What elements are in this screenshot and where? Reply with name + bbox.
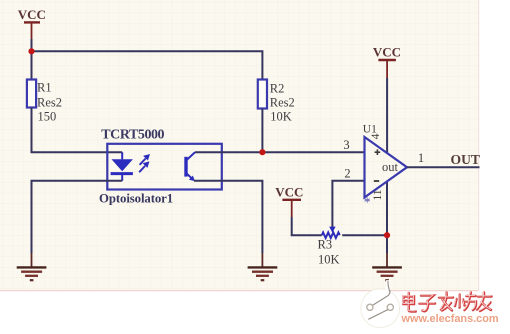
svg-text:R1: R1 [37,80,52,94]
wire collector to op-amp pin3 [195,151,365,153]
wire output pin1 [407,166,480,168]
watermark text you (友) [476,292,491,311]
watermark text dian (电) [403,292,416,311]
power port VCC3 (op-amp) [373,45,401,78]
svg-text:R3: R3 [318,238,333,252]
svg-text:VCC: VCC [275,185,303,200]
svg-text:www.elecfans.com: www.elecfans.com [401,313,499,325]
svg-text:1: 1 [418,151,424,165]
ground GND2 (middle) [248,253,278,280]
potentiometer R3 zigzag [322,232,340,238]
LED of optoisolator [111,152,133,181]
svg-text:VCC: VCC [18,7,46,22]
wire R1 bottom to LED anode [32,108,123,153]
plus sign pin3 [375,149,381,155]
resistor R1 [27,80,36,108]
svg-text:10K: 10K [270,110,292,124]
svg-text:2: 2 [344,167,350,181]
svg-text:4: 4 [370,133,382,139]
svg-text:out: out [382,160,399,174]
ground GND1 (left) [17,253,47,280]
svg-text:11: 11 [372,189,384,200]
wire emitter to ground [194,181,262,253]
svg-text:10K: 10K [318,253,340,267]
light emission arrows [139,155,149,173]
phototransistor of optoisolator [186,152,195,181]
svg-text:3: 3 [343,138,349,152]
optoisolator box TCRT5000 [107,144,222,190]
junction node R2 bottom / collector [259,149,265,155]
wire top rail to R2 [32,51,263,79]
wire LED cathode to ground [32,181,123,253]
junction node VCC rail [28,48,34,54]
watermark text zi (子) [419,295,435,311]
wire VCC2 to R3 left [292,217,322,235]
wire R3 right to junction [342,234,387,236]
ground GND3 (op-amp) [372,253,402,280]
watermark text shao (烧) [454,292,476,310]
minus sign pin2 [374,180,379,182]
svg-text:R2: R2 [270,81,285,95]
resistor R2 [258,80,267,109]
wire VCC1 stem to junction [31,39,33,51]
wire pin4 supply [386,78,388,153]
watermark text fa (发) [438,292,453,311]
svg-text:Res2: Res2 [270,96,295,110]
svg-text:OUT: OUT [451,152,480,167]
wire junction to R1 top [31,51,33,79]
wire pin11 to ground junction [386,181,388,253]
svg-text:Optoisolator1: Optoisolator1 [99,192,173,206]
junction node R3/pin11/ground [384,232,390,238]
svg-text:TCRT5000: TCRT5000 [101,128,164,143]
op-amp U1 triangle [365,137,408,197]
R3 wiper arrow [329,227,335,233]
svg-text:Res2: Res2 [37,96,62,110]
watermark logo disc [361,280,400,328]
svg-text:VCC: VCC [373,45,401,60]
power port VCC1 (top left) [18,7,46,39]
svg-text:150: 150 [38,109,57,123]
power port VCC2 (mid, for R3) [275,185,303,217]
svg-text:*: * [364,195,371,210]
wire R2 bottom to junction [261,109,263,153]
wire op-amp pin2 to R3 wiper [332,181,364,227]
